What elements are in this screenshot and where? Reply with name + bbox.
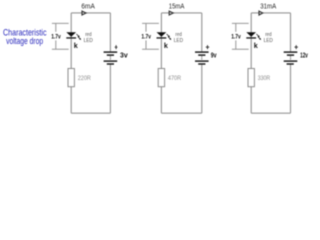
wire top (circuit 1)	[71, 12, 110, 14]
wire bottom (circuit 1)	[71, 112, 110, 114]
svg-text:k: k	[164, 41, 168, 50]
svg-text:470R: 470R	[168, 75, 182, 82]
svg-text:220R: 220R	[78, 75, 92, 82]
current direction arrow (circuit 3)	[259, 11, 263, 15]
wire bottom (circuit 3)	[251, 112, 290, 114]
node: LED voltage drop bracket (circuit 1)	[52, 22, 69, 24]
LED light emission arrows (circuit 3)	[256, 34, 258, 36]
wire right lower (circuit 2)	[201, 65, 203, 114]
current direction arrow (circuit 1)	[82, 11, 86, 15]
polarity label: + (battery B2)	[206, 47, 209, 48]
label: characteristic voltage drop note	[3, 28, 47, 46]
current direction arrow (circuit 2)	[169, 11, 173, 15]
wire right lower (circuit 1)	[109, 65, 111, 114]
svg-text:1.7v: 1.7v	[51, 34, 61, 41]
battery B3 (12v)	[284, 51, 298, 52]
node: LED voltage drop bracket (circuit 2)	[142, 22, 159, 24]
wire left (circuit 1)	[70, 13, 72, 113]
resistor R3 (330R)	[248, 69, 254, 87]
LED D1 (red LED)	[66, 32, 76, 37]
svg-text:330R: 330R	[258, 75, 271, 82]
svg-text:k: k	[74, 41, 78, 50]
wire bottom (circuit 2)	[161, 112, 201, 114]
wire left (circuit 3)	[250, 13, 252, 113]
svg-text:3v: 3v	[120, 53, 128, 60]
wire right upper (circuit 3)	[290, 13, 292, 52]
resistor R1 (220R)	[68, 69, 74, 87]
svg-text:k: k	[254, 41, 258, 50]
resistor R2 (470R)	[158, 69, 164, 87]
node: LED voltage drop bracket (circuit 3)	[232, 22, 249, 24]
wire right upper (circuit 1)	[109, 13, 111, 52]
svg-text:15mA: 15mA	[169, 3, 185, 10]
svg-text:31mA: 31mA	[260, 3, 276, 10]
svg-text:9v: 9v	[211, 53, 217, 60]
battery B1 (3v)	[104, 51, 118, 52]
wire left (circuit 2)	[160, 13, 162, 113]
LED D3 (red LED)	[246, 32, 256, 37]
LED light emission arrows (circuit 1)	[76, 34, 78, 36]
wire right lower (circuit 3)	[290, 65, 292, 114]
svg-text:6mA: 6mA	[81, 3, 95, 10]
svg-text:LED: LED	[174, 38, 183, 44]
polarity label: + (battery B1)	[115, 46, 118, 49]
LED D2 (red LED)	[157, 32, 167, 37]
svg-text:1.7v: 1.7v	[231, 34, 241, 41]
svg-text:LED: LED	[264, 38, 273, 44]
battery B2 (9v)	[195, 51, 209, 52]
svg-text:12v: 12v	[300, 53, 308, 60]
polarity label: + (battery B3)	[295, 47, 298, 48]
svg-text:voltage drop: voltage drop	[6, 36, 43, 46]
LED light emission arrows (circuit 2)	[167, 34, 169, 36]
wire right upper (circuit 2)	[201, 13, 203, 52]
wire top (circuit 3)	[251, 12, 290, 14]
svg-text:1.7v: 1.7v	[141, 34, 151, 41]
svg-text:LED: LED	[84, 38, 93, 44]
wire top (circuit 2)	[161, 12, 201, 14]
